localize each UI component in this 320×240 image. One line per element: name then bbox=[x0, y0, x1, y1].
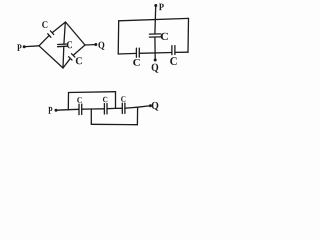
wire top loop riser left bbox=[67, 93, 69, 110]
wire bottom loop rail bbox=[91, 123, 137, 125]
label C on middle capacitor (diagram 1) bbox=[67, 41, 72, 48]
wire middle capacitor down to bottom vertex bbox=[62, 47, 65, 68]
wire left edge of rectangle bbox=[117, 21, 120, 54]
node Q (diagram 1 terminal dot) bbox=[94, 43, 97, 46]
wire capacitor to right vertex bbox=[74, 45, 86, 55]
wire bottom edge right section bbox=[175, 51, 188, 53]
wire bottom loop riser left bbox=[90, 109, 92, 124]
wire P to left vertex bbox=[26, 45, 40, 48]
label C on capacitor C9 bbox=[121, 96, 125, 102]
wire bottom loop riser right bbox=[136, 107, 138, 125]
wire P down through top edge to middle capacitor bbox=[154, 7, 157, 34]
label Q (diagram 2) bbox=[152, 64, 159, 73]
label P (diagram 1) bbox=[17, 44, 21, 50]
capacitor C7 plates bbox=[79, 104, 82, 115]
capacitor C8 plates bbox=[104, 104, 107, 115]
wire top edge of rectangle bbox=[119, 18, 189, 20]
wire right edge of rectangle bbox=[187, 18, 190, 52]
wire capacitor C8 to third junction bbox=[107, 107, 116, 109]
label C on bottom-right capacitor (diagram 2) bbox=[170, 57, 177, 65]
label C on capacitor C8 bbox=[103, 97, 107, 102]
label C on top-left edge capacitor bbox=[42, 21, 47, 28]
label C on bottom-left capacitor (diagram 2) bbox=[133, 59, 140, 66]
wire left vertex to bottom vertex bbox=[39, 46, 63, 68]
capacitor C9 plates bbox=[122, 103, 125, 113]
wire capacitor to top vertex bbox=[53, 22, 66, 32]
label P (diagram 3) bbox=[48, 107, 52, 114]
capacitor C1 plates (top-left edge) bbox=[48, 31, 54, 37]
node P (diagram 1 terminal dot) bbox=[23, 45, 26, 48]
wire top vertex to right vertex bbox=[66, 22, 86, 45]
wire third junction to capacitor C9 bbox=[116, 107, 123, 109]
label C on bottom-right edge capacitor bbox=[76, 57, 82, 64]
wire top loop riser right bbox=[115, 92, 117, 109]
label Q (diagram 1) bbox=[98, 42, 104, 50]
wire fourth junction to Q dot bbox=[138, 106, 149, 107]
wire right vertex to Q dot bbox=[85, 44, 95, 46]
wire capacitor C7 to second junction bbox=[82, 108, 92, 110]
label C on middle capacitor (diagram 2) bbox=[161, 33, 168, 40]
capacitor C2 plates (middle vertical branch) bbox=[58, 44, 67, 47]
capacitor C6 plates (middle of rectangle) bbox=[149, 34, 160, 37]
wire top vertex down to middle capacitor bbox=[64, 23, 65, 45]
wire bottom edge middle section (through Q junction) bbox=[139, 52, 172, 55]
node Q (diagram 2 terminal dot) bbox=[154, 59, 157, 62]
wire second junction to capacitor C8 bbox=[91, 108, 104, 110]
label P (diagram 2) bbox=[159, 4, 164, 10]
label Q (diagram 3) bbox=[152, 102, 159, 111]
label C on capacitor C7 bbox=[77, 97, 82, 103]
capacitor C4 plates (bottom-left of rectangle) bbox=[136, 48, 139, 57]
wire first junction to capacitor C7 bbox=[68, 108, 79, 110]
node Q (diagram 3 terminal dot) bbox=[149, 104, 152, 107]
wire top loop rail bbox=[69, 91, 116, 94]
capacitor C5 plates (bottom-right of rectangle) bbox=[172, 46, 175, 55]
wire bottom vertex to capacitor on bottom-right edge bbox=[63, 59, 70, 68]
wire capacitor C9 to fourth junction bbox=[125, 107, 138, 108]
wire left vertex to capacitor on top-left edge bbox=[39, 36, 49, 46]
node P (diagram 3 terminal dot) bbox=[55, 109, 58, 112]
capacitor C3 plates (bottom-right edge) bbox=[69, 54, 75, 60]
wire bottom edge left section bbox=[118, 52, 136, 55]
wire middle capacitor down through bottom edge to Q bbox=[154, 37, 156, 59]
wire P to first junction bbox=[57, 109, 68, 112]
node P (diagram 2 terminal dot) bbox=[154, 4, 157, 7]
